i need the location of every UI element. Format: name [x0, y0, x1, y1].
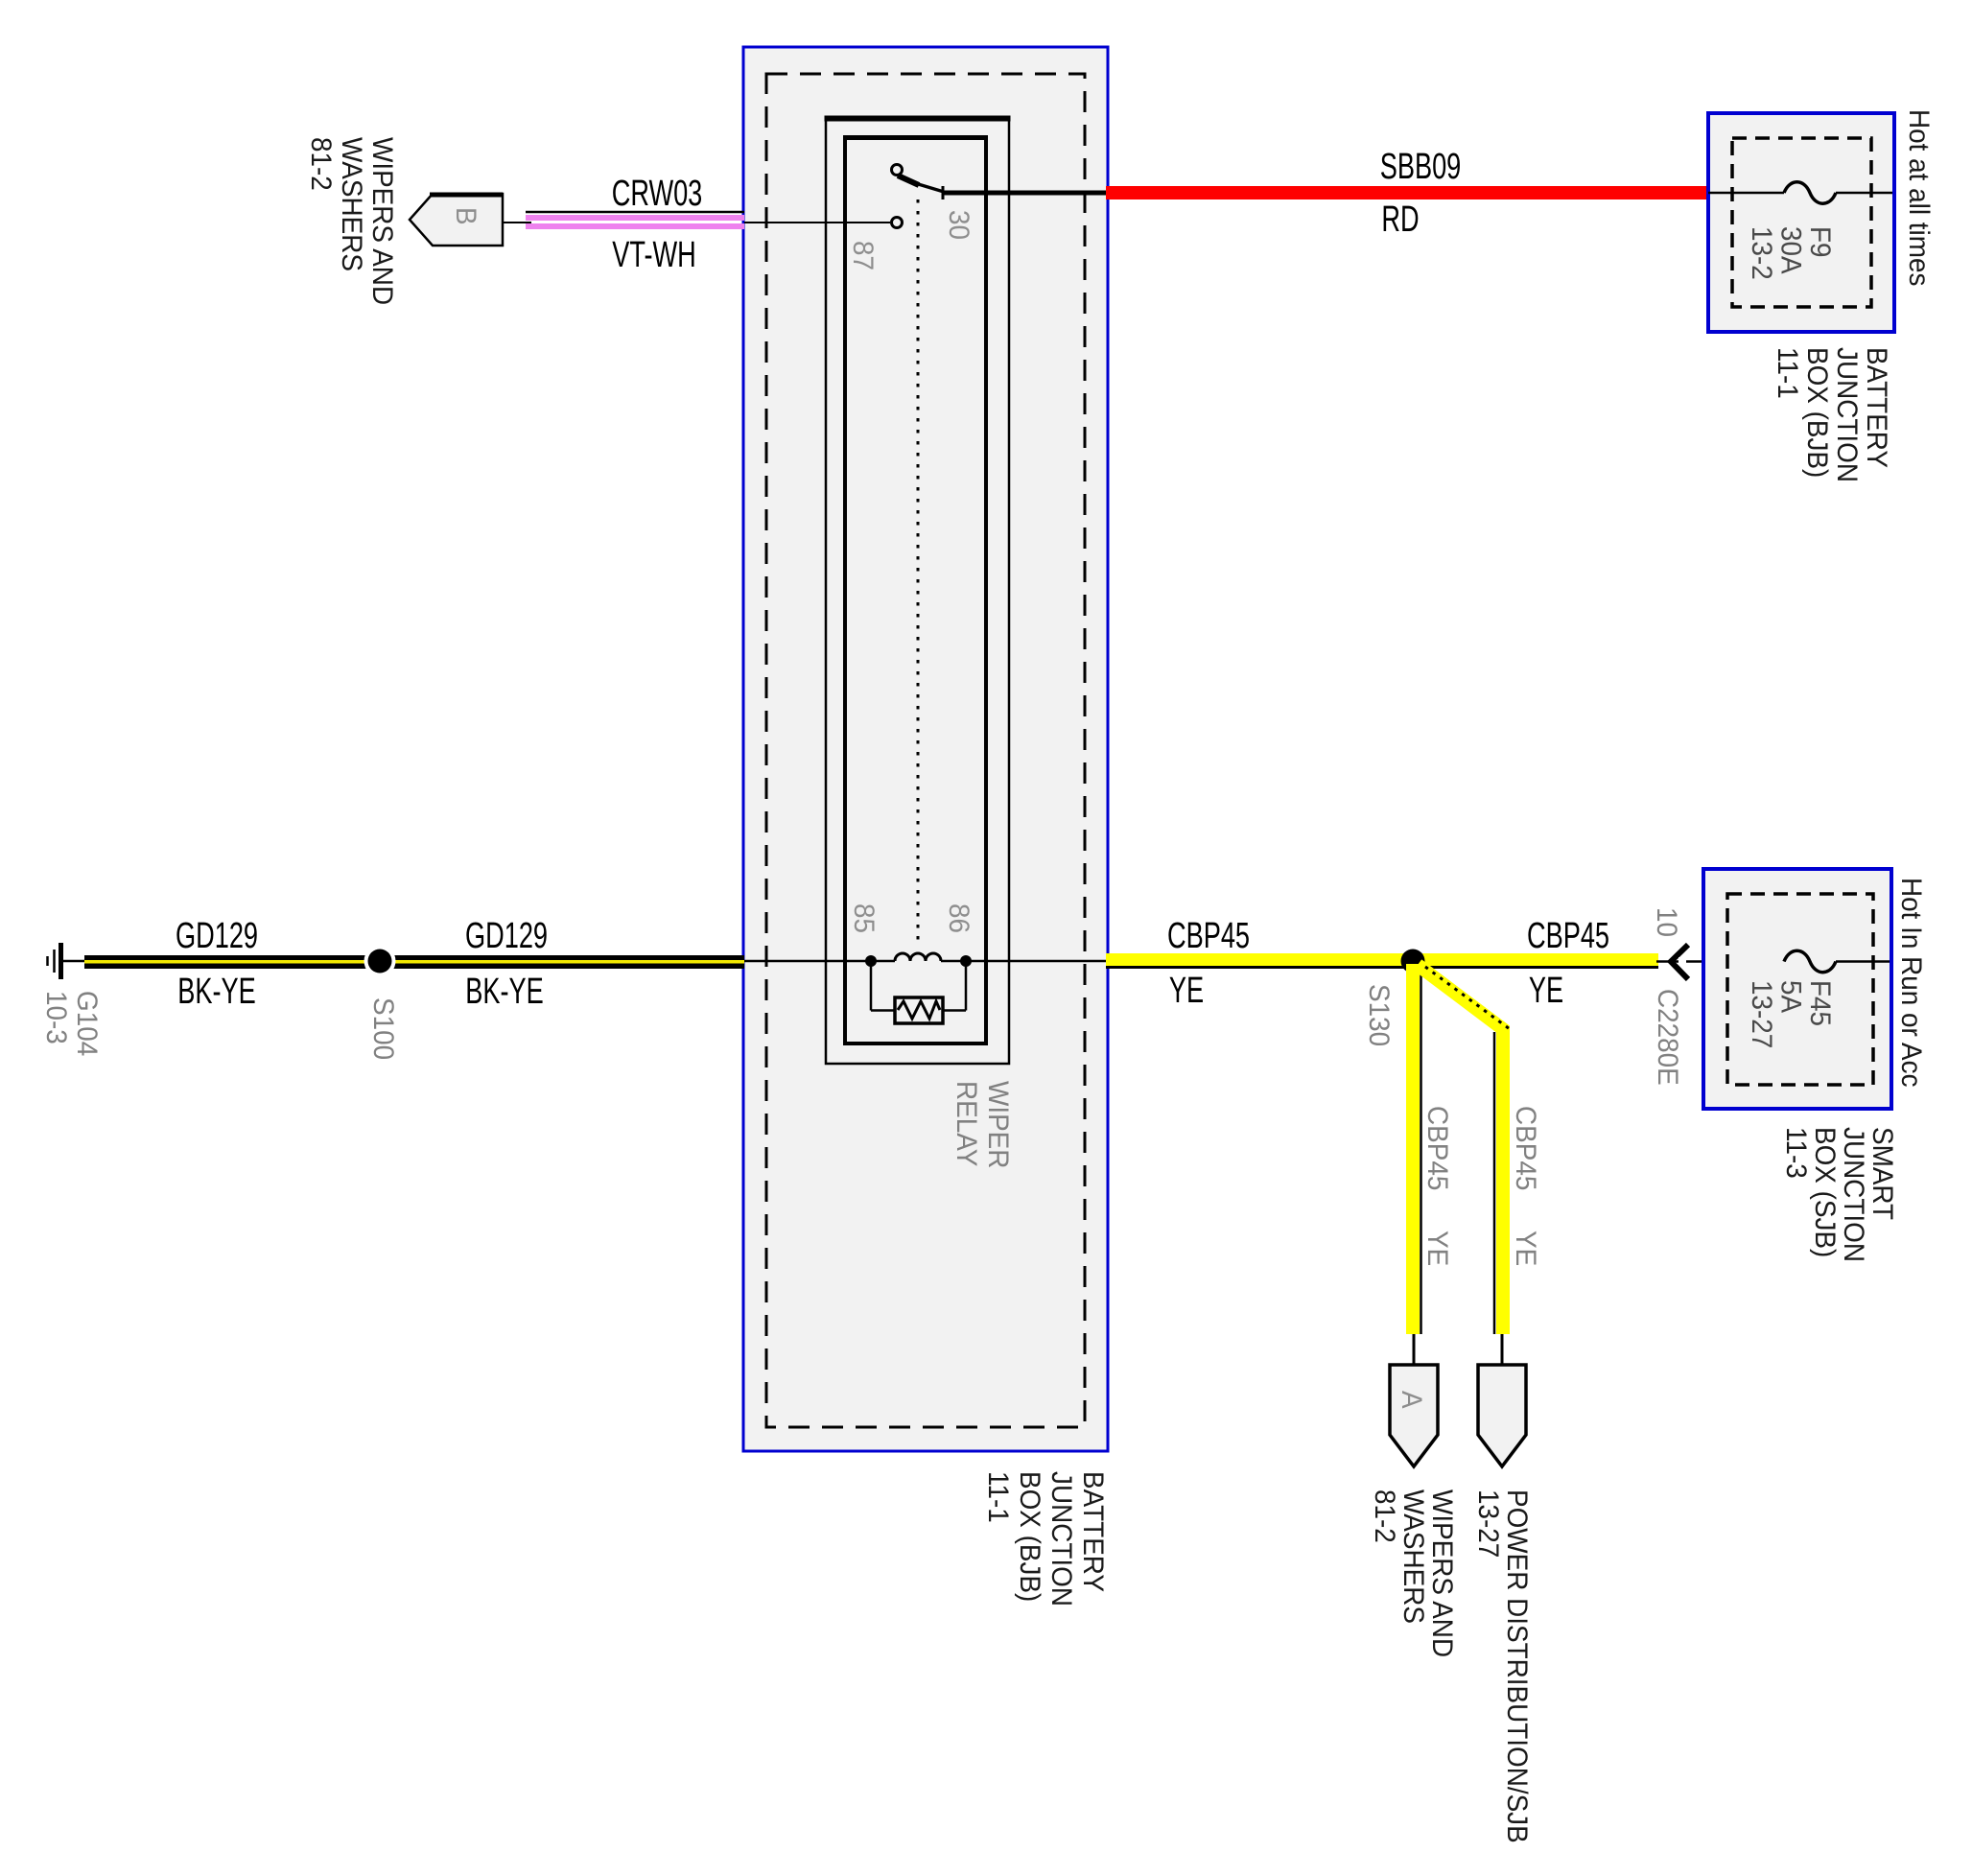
label WIPERS AND WASHERS 81-2 (bottom)	[1369, 1489, 1458, 1657]
wire SBB09 RD red band	[1106, 186, 1708, 199]
pin label 30	[943, 210, 974, 240]
svg-text:C2280E: C2280E	[1652, 989, 1683, 1086]
label S130	[1363, 984, 1395, 1046]
svg-text:S130: S130	[1363, 984, 1395, 1046]
label WIPERS AND WASHERS 81-2 (top left)	[305, 137, 398, 305]
relay suppression resistor	[871, 961, 966, 1023]
svg-text:VT-WH: VT-WH	[612, 233, 695, 274]
label B	[450, 207, 481, 225]
svg-text:85: 85	[848, 903, 880, 933]
svg-text:CRW03: CRW03	[612, 172, 703, 213]
label POWER DISTRIBUTION/SJB 13-27	[1472, 1489, 1533, 1843]
label CBP45 (segment 1)	[1167, 914, 1250, 955]
svg-text:RD: RD	[1381, 198, 1419, 239]
svg-text:30: 30	[943, 210, 974, 240]
label G104 10-3	[40, 991, 103, 1056]
pin label 87	[847, 241, 879, 270]
wiper relay inner box	[844, 137, 988, 1044]
wire GD129 segment 1 (ground to splice S100)	[63, 955, 744, 969]
label CBP45 (branch 2)	[1510, 1106, 1541, 1190]
svg-text:YE: YE	[1169, 969, 1204, 1010]
connector symbol C2280E pin 10	[1671, 945, 1688, 979]
svg-text:87: 87	[847, 241, 879, 270]
label CBP45 (segment 2)	[1527, 914, 1609, 955]
label YE (segment 1)	[1169, 969, 1204, 1010]
svg-text:GD129: GD129	[176, 914, 258, 955]
pin 87 terminal	[744, 218, 903, 228]
battery junction box BJB (center)	[743, 47, 1108, 1451]
fuse F45 5A	[1784, 950, 1890, 973]
relay coil (pins 85-86)	[865, 953, 972, 967]
label YE (branch 2)	[1510, 1231, 1541, 1266]
smart junction box SJB fuse holder	[1703, 869, 1891, 1109]
label GD129 (segment 2)	[465, 914, 548, 955]
label YE (branch 1)	[1421, 1231, 1453, 1266]
svg-text:YE: YE	[1421, 1231, 1453, 1266]
svg-text:YE: YE	[1529, 969, 1563, 1010]
splice S100	[364, 946, 396, 977]
wire CRW03 connector line	[503, 222, 531, 223]
svg-text:CBP45: CBP45	[1167, 914, 1250, 955]
wire CBP45 YE horizontal band	[1106, 953, 1658, 968]
label F45 5A 13-27	[1746, 980, 1836, 1048]
relay switch pin 30	[892, 165, 945, 200]
label WIPER RELAY	[951, 1081, 1014, 1168]
splice S130	[1401, 950, 1425, 973]
pin label 86	[943, 903, 974, 933]
label BATTERY JUNCTION BOX (BJB) 11-1 (top right)	[1772, 347, 1892, 482]
svg-text:CBP45: CBP45	[1510, 1106, 1541, 1190]
label YE (segment 2)	[1529, 969, 1563, 1010]
label GD129 (segment 1)	[176, 914, 258, 955]
svg-text:GD129: GD129	[465, 914, 548, 955]
battery junction box fuse holder F9	[1708, 113, 1894, 332]
label BATTERY JUNCTION BOX (BJB) 11-1 (below BJB)	[982, 1471, 1109, 1606]
pin label 85	[848, 903, 880, 933]
svg-text:86: 86	[943, 903, 974, 933]
svg-text:B: B	[450, 207, 481, 225]
svg-text:Hot In Run or Acc: Hot In Run or Acc	[1895, 878, 1927, 1088]
svg-text:A: A	[1396, 1391, 1427, 1409]
svg-text:YE: YE	[1510, 1231, 1541, 1266]
wire from relay coil pin 86 to box edge	[966, 960, 1108, 963]
svg-text:WIPERRELAY: WIPERRELAY	[951, 1081, 1014, 1168]
svg-text:BK-YE: BK-YE	[177, 970, 256, 1011]
relay actuator dotted link	[917, 199, 920, 946]
wire into relay coil pin 85	[744, 960, 871, 963]
label F9 30A 13-2	[1746, 226, 1836, 280]
connector to power distribution	[1478, 1365, 1526, 1466]
wire CBP45 vertical branch 2 (S130 to power distribution)	[1418, 965, 1510, 1366]
wire CRW03 VT-WH band	[526, 212, 744, 229]
svg-text:S100: S100	[367, 997, 399, 1060]
label BK-YE (segment 1)	[177, 970, 256, 1011]
wire CBP45 vertical branch 1 (S130 to connector A)	[1413, 964, 1421, 1366]
label 10	[1651, 907, 1682, 937]
label CBP45 (branch 1)	[1421, 1106, 1453, 1190]
connector A	[1390, 1365, 1438, 1466]
label Hot In Run or Acc	[1895, 878, 1927, 1088]
label S100	[367, 997, 399, 1060]
wire line into SJB	[1656, 960, 1784, 963]
label VT-WH	[612, 233, 695, 274]
label RD	[1381, 198, 1419, 239]
svg-text:BK-YE: BK-YE	[465, 970, 544, 1011]
wire SBB09 thick from pin 30 to box edge	[944, 191, 1108, 196]
svg-text:Hot at all times: Hot at all times	[1903, 109, 1935, 286]
connector B	[410, 194, 503, 246]
svg-text:CBP45: CBP45	[1527, 914, 1609, 955]
fuse F9 30A	[1708, 182, 1892, 204]
label C2280E	[1652, 989, 1683, 1086]
label BK-YE (segment 2)	[465, 970, 544, 1011]
label Hot at all times	[1903, 109, 1935, 286]
wiper relay outer box	[825, 118, 1011, 1064]
label A	[1396, 1391, 1427, 1409]
label CRW03	[612, 172, 703, 213]
svg-text:10: 10	[1651, 907, 1682, 937]
ground G104	[48, 943, 61, 979]
svg-text:CBP45: CBP45	[1421, 1106, 1453, 1190]
label SMART JUNCTION BOX (SJB) 11-3	[1780, 1127, 1898, 1262]
svg-text:SBB09: SBB09	[1380, 145, 1462, 186]
BJB internal dashed boundary	[766, 74, 1085, 1427]
label SBB09	[1380, 145, 1462, 186]
